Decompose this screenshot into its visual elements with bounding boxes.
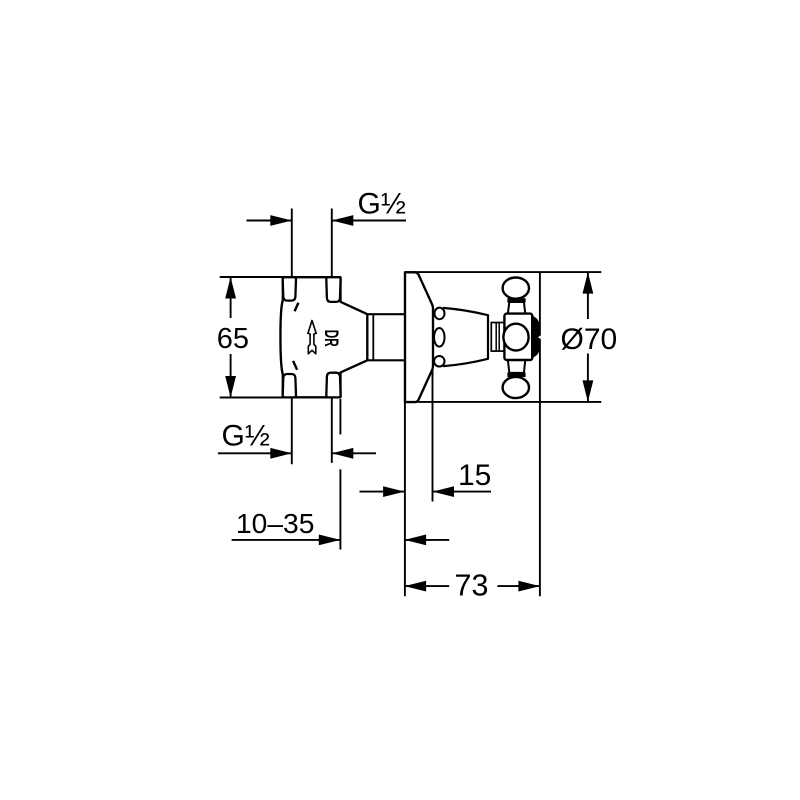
svg-text:10–35: 10–35 [236, 507, 314, 539]
svg-text:73: 73 [455, 569, 489, 603]
svg-text:65: 65 [217, 323, 249, 355]
svg-text:DR: DR [320, 330, 342, 347]
svg-text:Ø70: Ø70 [561, 323, 618, 356]
svg-text:G½: G½ [358, 188, 406, 221]
svg-text:15: 15 [458, 459, 491, 492]
svg-text:G½: G½ [222, 420, 270, 453]
